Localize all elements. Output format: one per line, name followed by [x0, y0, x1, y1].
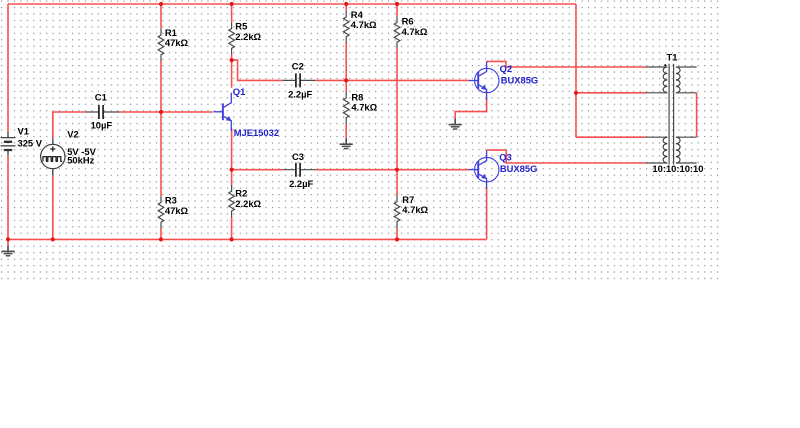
- junction rail R2: [230, 237, 234, 241]
- svg-text:10µF: 10µF: [91, 120, 113, 131]
- value C3 2.2uF: [289, 178, 313, 189]
- label C2: [292, 61, 304, 72]
- junction T1 center tap: [574, 91, 578, 95]
- svg-text:V1: V1: [18, 126, 29, 137]
- label Q1: [233, 86, 246, 97]
- wire top supply rail: [8, 3, 576, 5]
- value Q3 BUX85G: [500, 163, 538, 174]
- value T1 ratio 10:10:10:10: [652, 163, 703, 174]
- junction R4-R8-C2 node: [344, 78, 348, 82]
- wire R2 bottom: [231, 217, 233, 240]
- wire R1 top: [160, 4, 162, 29]
- value R7 4.7k: [402, 204, 428, 215]
- resistor R1: [158, 29, 164, 61]
- ground R8 bottom: [340, 138, 353, 148]
- wire T1 primary1 bottom tap: [576, 92, 646, 94]
- resistor R2: [229, 185, 235, 217]
- resistor R3: [158, 196, 164, 228]
- svg-text:2.2µF: 2.2µF: [289, 178, 313, 189]
- svg-text:4.7kΩ: 4.7kΩ: [351, 19, 377, 30]
- capacitor C3: [283, 163, 316, 177]
- junction R6-R7-C3 node: [395, 168, 399, 172]
- svg-text:T1: T1: [667, 51, 678, 62]
- value V2 5V -5V: [67, 146, 96, 157]
- label R5: [235, 20, 247, 31]
- capacitor C2: [283, 73, 316, 87]
- junction rail V2: [51, 237, 55, 241]
- wire R7 bottom: [396, 227, 398, 239]
- junction R5 top rail: [230, 2, 234, 6]
- wire R4 bottom to node: [345, 43, 347, 81]
- label R3: [165, 195, 177, 206]
- wire V1 top: [7, 4, 9, 132]
- value R2 2.2k: [235, 198, 261, 209]
- svg-text:V2: V2: [67, 129, 78, 140]
- transistor Q3 BUX85G: [469, 150, 499, 188]
- wire node to R8 top: [345, 80, 347, 91]
- svg-text:47kΩ: 47kΩ: [165, 37, 189, 48]
- svg-text:325 V: 325 V: [18, 138, 43, 149]
- wire Q2 emitter to ground: [455, 98, 486, 118]
- svg-text:Q1: Q1: [233, 86, 246, 97]
- wire V2 bottom: [52, 175, 54, 239]
- wire C1 to Q1 base: [119, 111, 213, 113]
- svg-text:C2: C2: [292, 61, 304, 72]
- transformer T1: [646, 64, 697, 165]
- wire ground stub below rail: [7, 239, 9, 245]
- value Q2 BUX85G: [501, 74, 539, 85]
- value R5 2.2k: [235, 31, 261, 42]
- svg-text:2.2µF: 2.2µF: [288, 88, 312, 99]
- wire R2 top: [231, 170, 233, 185]
- wire bottom ground rail: [8, 238, 487, 240]
- svg-text:C1: C1: [95, 91, 107, 102]
- resistor R4: [343, 11, 349, 43]
- wire Q2 collector to T1: [487, 61, 646, 67]
- source V2: [41, 139, 65, 176]
- resistor R7: [394, 195, 400, 227]
- label Q2: [500, 63, 513, 74]
- svg-text:10:10:10:10: 10:10:10:10: [652, 163, 703, 174]
- svg-text:4.7kΩ: 4.7kΩ: [402, 26, 428, 37]
- junction rail R7: [395, 237, 399, 241]
- svg-text:R7: R7: [402, 194, 414, 205]
- label V2: [67, 129, 78, 140]
- ground Q2 emitter: [449, 119, 462, 129]
- value C2 2.2uF: [288, 88, 312, 99]
- value R1 47k: [165, 37, 189, 48]
- wire T1 secondary series link: [696, 93, 698, 137]
- resistor R5: [229, 22, 235, 54]
- value R4 4.7k: [351, 19, 377, 30]
- svg-text:2.2kΩ: 2.2kΩ: [235, 198, 261, 209]
- wire supply rail down to T1: [575, 4, 577, 137]
- junction rail ground: [6, 237, 10, 241]
- wire R5 top: [231, 4, 233, 22]
- value R3 47k: [165, 205, 189, 216]
- label Q3: [499, 152, 512, 163]
- junction R4 top rail: [344, 2, 348, 6]
- value R8 4.7k: [351, 102, 377, 113]
- ground main (lower left): [1, 245, 14, 255]
- junction R1-R3 base node: [159, 110, 163, 114]
- label R1: [165, 27, 177, 38]
- label R7: [402, 194, 414, 205]
- svg-text:47kΩ: 47kΩ: [165, 205, 189, 216]
- wire R3 bottom: [160, 228, 162, 239]
- wire node to R3 top: [160, 112, 162, 196]
- junction R1 top rail: [159, 2, 163, 6]
- label R6: [402, 16, 414, 27]
- svg-text:4.7kΩ: 4.7kΩ: [351, 102, 377, 113]
- svg-text:MJE15032: MJE15032: [234, 127, 279, 138]
- label T1: [667, 51, 678, 62]
- resistor R6: [394, 16, 400, 48]
- wire Q3 emitter to rail: [486, 188, 488, 240]
- svg-text:50kHz: 50kHz: [67, 155, 94, 166]
- value V1 325 V: [18, 138, 43, 149]
- value Q1 MJE15032: [234, 127, 279, 138]
- schematic sheet dotted grid: [0, 0, 719, 282]
- capacitor C1: [86, 105, 119, 119]
- wire R8 bottom to ground: [345, 124, 347, 139]
- junction Q1 emitter node: [230, 168, 234, 172]
- resistor R8: [343, 92, 349, 124]
- junction rail R3: [159, 237, 163, 241]
- wire R4 top: [345, 4, 347, 11]
- wire T1 primary2 top: [576, 136, 646, 138]
- wire Q1 emitter down: [231, 129, 233, 170]
- svg-text:Q2: Q2: [500, 63, 513, 74]
- transistor Q2 BUX85G: [469, 61, 499, 99]
- junction R5-C2 node: [230, 58, 234, 62]
- wire R6 top: [396, 4, 398, 16]
- svg-text:4.7kΩ: 4.7kΩ: [402, 204, 428, 215]
- wire R5 bottom to Q1 collector: [231, 54, 233, 88]
- wire emitter node to C3 left: [232, 169, 283, 171]
- label C1: [95, 91, 107, 102]
- value V2 50kHz: [67, 155, 94, 166]
- battery V1: [1, 132, 16, 156]
- transistor Q1 MJE15032: [214, 93, 232, 131]
- label R8: [351, 91, 363, 102]
- wire C3 right to Q3 base: [316, 169, 470, 171]
- wire R6 bottom to node: [396, 48, 398, 170]
- label C3: [292, 151, 304, 162]
- label R4: [351, 9, 364, 20]
- wire node to C2 left: [232, 60, 283, 80]
- value R6 4.7k: [402, 26, 428, 37]
- svg-text:R5: R5: [235, 20, 247, 31]
- wire R1 bottom to node: [160, 61, 162, 112]
- label V1: [18, 126, 29, 137]
- wire V2 top to C1: [53, 112, 86, 139]
- svg-text:BUX85G: BUX85G: [501, 74, 539, 85]
- svg-text:Q3: Q3: [499, 152, 512, 163]
- junction R6 top rail: [395, 2, 399, 6]
- wire C2 right to Q2 base: [316, 79, 470, 81]
- wire V1 bottom to ground rail: [7, 156, 9, 240]
- label R2: [235, 188, 247, 199]
- wire node to R7 top: [396, 170, 398, 196]
- value C1 10uF: [91, 120, 113, 131]
- svg-text:C3: C3: [292, 151, 304, 162]
- wire Q3 collector to T1: [487, 150, 646, 163]
- svg-text:BUX85G: BUX85G: [500, 163, 538, 174]
- svg-text:2.2kΩ: 2.2kΩ: [235, 31, 261, 42]
